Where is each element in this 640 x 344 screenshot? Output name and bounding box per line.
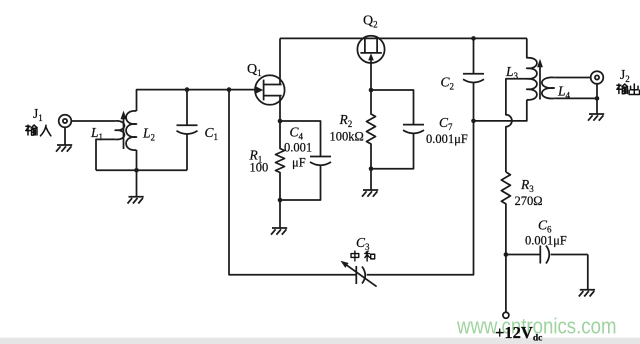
wire tank bottom to L3 bottom <box>474 100 527 121</box>
capacitor C4 <box>280 121 331 200</box>
node Q1 source / R1 / C4 <box>278 119 283 124</box>
svg-text:μF: μF <box>292 156 306 170</box>
wire bottom rail <box>96 169 187 171</box>
connector J1 <box>59 115 72 128</box>
inductor L4 <box>542 77 554 98</box>
svg-text:100kΩ: 100kΩ <box>330 130 364 144</box>
wire L2 top leg and gate rail to Q1 <box>137 90 256 111</box>
terminal +12V <box>503 312 509 318</box>
core arrow between L3 and L4 <box>537 59 543 100</box>
wire Q2 gate down to node <box>370 63 372 90</box>
node top rail / C2 <box>471 36 476 41</box>
node R2/C7 bottom <box>369 167 374 172</box>
wire down to +12V terminal <box>505 255 507 313</box>
wire J1 ground stem <box>64 127 66 145</box>
resistor R3 <box>501 172 510 255</box>
wire C6 to ground <box>587 255 589 290</box>
connector J2 <box>591 71 604 84</box>
ground at R1/C4 <box>271 228 287 235</box>
wire Q1 drain up to top rail <box>279 38 281 84</box>
resistor R2 <box>367 90 376 169</box>
wire J2 stem <box>596 84 598 114</box>
node R3 bottom / C6 <box>504 252 509 257</box>
inductor L3 <box>527 38 537 99</box>
svg-text:0.001: 0.001 <box>284 141 312 155</box>
bottom gray strip <box>0 338 640 344</box>
label 输入 <box>26 125 51 136</box>
node J2 ground <box>595 96 600 101</box>
inductor L2 <box>126 111 136 150</box>
wire Q1 source down <box>279 96 281 121</box>
ground at J2 <box>588 114 604 121</box>
core arrow between L1 and L2 <box>121 111 127 150</box>
svg-text:270Ω: 270Ω <box>515 194 543 208</box>
wire left vertical down to C3 <box>229 90 356 275</box>
node R1/C4 bottom <box>278 198 283 203</box>
ground at R2/C7 <box>362 190 378 197</box>
wire L4 bottom to J2 ground <box>554 97 597 99</box>
label zhonghe (neutralize) <box>351 251 375 261</box>
capacitor C2 <box>463 38 484 121</box>
svg-text:100: 100 <box>250 161 269 175</box>
svg-text:0.001μF: 0.001μF <box>525 233 567 247</box>
wire L1 return to bottom rail <box>96 139 115 170</box>
resistor R1 <box>276 121 285 200</box>
ground at J1 <box>56 145 72 152</box>
ground at C6 <box>579 290 595 297</box>
transistor Q2 <box>357 36 384 63</box>
node C2 bottom / tank bottom <box>471 119 476 124</box>
inductor L1 <box>115 121 124 140</box>
wire L4 top to J2 <box>554 77 591 79</box>
node L2 bottom junction <box>134 168 139 173</box>
wire to ground below R1 <box>279 200 281 228</box>
wire J1 to L1 <box>71 120 115 122</box>
label 输出 <box>617 84 640 94</box>
wire L2 bottom to ground <box>136 150 138 197</box>
transistor Q1 <box>255 75 285 105</box>
capacitor C6 <box>506 246 588 264</box>
node Q2 gate / R2 / C7 <box>369 88 374 93</box>
svg-text:0.001μF: 0.001μF <box>426 132 468 146</box>
ground at L2 <box>128 197 144 204</box>
wire to ground below R2 <box>370 169 372 190</box>
wire top rail <box>280 37 527 39</box>
capacitor C1 <box>177 90 198 171</box>
wire L3 tap to R3 with hop over tank wire <box>506 79 527 172</box>
capacitor C7 <box>371 90 424 169</box>
capacitor C3 (neutralizing, variable) <box>341 121 474 287</box>
node C1 top <box>185 87 190 92</box>
node gate rail to C3 branch <box>227 87 232 92</box>
